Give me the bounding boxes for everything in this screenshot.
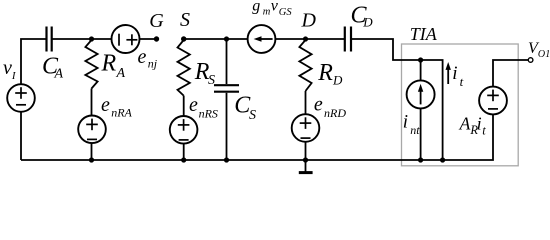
svg-text:D: D xyxy=(362,14,373,29)
svg-text:m: m xyxy=(263,6,271,17)
svg-text:g: g xyxy=(252,0,260,15)
svg-text:D: D xyxy=(301,10,317,32)
svg-text:GS: GS xyxy=(279,7,293,18)
svg-text:t: t xyxy=(482,124,486,138)
svg-text:e: e xyxy=(189,94,198,116)
svg-text:G: G xyxy=(149,10,164,32)
svg-text:t: t xyxy=(460,74,464,89)
svg-text:nj: nj xyxy=(148,57,158,71)
svg-text:R: R xyxy=(317,60,333,86)
svg-text:v: v xyxy=(3,57,12,79)
svg-text:A: A xyxy=(459,113,471,133)
svg-text:O: O xyxy=(538,49,545,60)
svg-text:e: e xyxy=(138,46,147,68)
svg-text:D: D xyxy=(332,73,343,88)
svg-text:e: e xyxy=(101,94,110,116)
svg-text:A: A xyxy=(54,67,64,82)
svg-text:i: i xyxy=(477,113,482,133)
svg-text:nRA: nRA xyxy=(111,106,132,120)
svg-text:nRS: nRS xyxy=(199,107,218,121)
svg-text:v: v xyxy=(271,0,279,15)
svg-text:1: 1 xyxy=(545,49,550,60)
svg-text:e: e xyxy=(314,94,323,116)
svg-text:S: S xyxy=(180,9,190,31)
svg-text:nRD: nRD xyxy=(324,106,346,120)
svg-text:R: R xyxy=(101,50,117,76)
svg-text:A: A xyxy=(116,66,126,81)
svg-text:i: i xyxy=(403,112,408,133)
svg-text:i: i xyxy=(452,63,457,84)
svg-text:S: S xyxy=(249,108,256,123)
svg-text:S: S xyxy=(208,73,215,88)
svg-text:TIA: TIA xyxy=(410,24,438,44)
svg-text:nt: nt xyxy=(410,123,420,137)
